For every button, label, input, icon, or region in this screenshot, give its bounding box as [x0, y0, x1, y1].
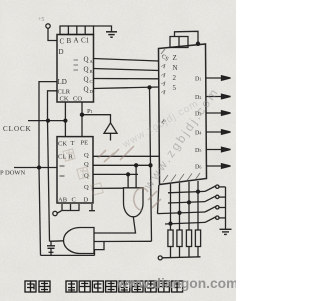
node CLOCK/CK junction — [64, 119, 67, 122]
svg-text:B: B — [90, 69, 93, 74]
node QD junction — [148, 86, 151, 89]
svg-text:CK: CK — [60, 96, 69, 103]
wire bottom rail — [41, 254, 95, 256]
wire switch common rail — [225, 187, 227, 229]
svg-text:C: C — [72, 197, 76, 204]
svg-text:CLOCK: CLOCK — [3, 125, 32, 133]
wire U1 CK column — [64, 102, 66, 137]
svg-text:Q: Q — [84, 152, 89, 159]
capacitor C1 — [47, 241, 55, 255]
svg-text:D: D — [84, 197, 89, 204]
U1 top preset stub box — [60, 26, 94, 35]
wire U1 presets to ground — [94, 26, 112, 32]
svg-text:D: D — [59, 48, 64, 56]
svg-text:Q: Q — [84, 86, 89, 94]
ground (right) — [220, 229, 232, 234]
switch S2 — [205, 195, 226, 201]
switch S1 — [205, 185, 226, 191]
wire U1 CO column, node P1 — [81, 102, 83, 137]
wire G1 input a — [127, 174, 129, 187]
node CLR/CLOCK junction — [47, 119, 50, 122]
terminal preset input — [53, 211, 62, 216]
svg-text:P1: P1 — [87, 108, 93, 115]
wire G2 lower input from QD column — [94, 240, 152, 242]
U3 top stub box with hook — [170, 31, 200, 47]
svg-text:Q: Q — [84, 184, 89, 191]
svg-text:Z: Z — [173, 54, 177, 62]
svg-text:Q: Q — [84, 56, 89, 64]
wire CLOCK — [28, 120, 65, 122]
U3 bottom hatch marks — [161, 49, 200, 182]
U3 output arrows — [206, 76, 231, 169]
svg-text:5: 5 — [173, 84, 177, 92]
svg-text:Q: Q — [84, 76, 89, 84]
wire G2 output to CLR column — [50, 240, 64, 243]
wire rail jog up to G2 input — [95, 242, 105, 256]
wire U1 LD left and down to P-DOWN — [39, 82, 57, 168]
wire G1 output to G2 — [94, 217, 136, 233]
svg-text:+5: +5 — [38, 17, 44, 23]
wire G1 input b — [135, 165, 137, 188]
switch S3 — [205, 206, 226, 212]
wire P DOWN — [14, 167, 57, 169]
U3 vertical part number — [173, 54, 178, 92]
wire U2 Q3 — [93, 173, 138, 175]
wire U1 QD to U3 — [94, 87, 159, 89]
wire resistors to rail — [171, 247, 199, 258]
inverter U4 — [104, 123, 117, 141]
U2 bottom stubs — [62, 204, 96, 211]
wire U2 Q2 — [93, 164, 151, 166]
wire +5V to U1 D input — [48, 28, 57, 40]
svg-text:A: A — [74, 37, 79, 45]
U3 left pin labels — [160, 54, 170, 126]
node LD/PDOWN junction — [38, 166, 41, 169]
svg-text:LD: LD — [58, 78, 67, 86]
U2 pin labels — [58, 140, 89, 204]
register U2 body — [57, 137, 93, 203]
wire U1 QC to U3 — [94, 78, 159, 80]
wire P1 to inverter — [82, 115, 111, 123]
svg-text:PE: PE — [81, 140, 89, 147]
wire switch row 2 — [168, 202, 205, 203]
wire U1 QB to U3 — [94, 69, 159, 71]
resistor R2 — [177, 230, 182, 247]
ground (top) — [106, 32, 117, 37]
resistor R4 — [195, 230, 200, 247]
wire U1 CLR column down to G2 output — [48, 91, 58, 242]
wire U2 Q4 to G1 — [93, 187, 124, 189]
wire U3 address columns to resistors — [171, 181, 199, 230]
wire switch row 4 — [165, 222, 205, 224]
svg-text:C: C — [90, 79, 93, 84]
wire resistor rail — [163, 257, 201, 258]
switch S4 — [205, 216, 226, 222]
wire left vertical to bottom rail — [39, 168, 41, 256]
svg-text:CO: CO — [73, 96, 82, 103]
watermark scribbles center — [98, 146, 161, 210]
wire chip corner to row 3 — [158, 185, 159, 214]
wire switch row 3 — [158, 212, 206, 214]
wire QD column down to gate G2 input — [150, 87, 152, 241]
watermark CJK marks over U2 — [63, 149, 103, 195]
resistor R3 — [186, 230, 191, 247]
svg-text:C: C — [60, 38, 65, 46]
svg-text:C1: C1 — [81, 37, 90, 45]
svg-text:B: B — [67, 37, 72, 45]
wire U2 Q1 to U3 CS — [93, 155, 159, 157]
svg-text:N: N — [173, 64, 178, 72]
svg-text:T: T — [71, 140, 75, 147]
caption 附图 通用环形分配器电路图 (fake CJK glyphs) — [25, 281, 183, 292]
svg-text:AB: AB — [58, 197, 68, 204]
svg-text:Q: Q — [84, 66, 89, 74]
svg-text:CLR: CLR — [58, 89, 71, 96]
EPROM U3 body — [159, 44, 207, 185]
and-gate G1 (pointing down) — [124, 188, 144, 217]
terminal rail left — [158, 256, 162, 260]
counter U1 body — [57, 35, 94, 103]
svg-text:CK: CK — [58, 141, 67, 148]
wire U1 QA to U3 — [94, 59, 159, 62]
wire switch row 1 — [168, 191, 205, 192]
U1 pin labels — [58, 37, 94, 103]
terminal +5V — [38, 17, 50, 28]
U3 output labels D1-D6 — [195, 77, 201, 171]
and-gate G2 (pointing left) — [64, 228, 94, 254]
U1 internal part marks — [74, 60, 79, 70]
resistor R1 — [168, 230, 173, 247]
svg-text:2: 2 — [173, 74, 177, 82]
svg-text:www.diangon.com: www.diangon.com — [116, 276, 236, 291]
svg-text:P DOWN: P DOWN — [0, 170, 26, 177]
